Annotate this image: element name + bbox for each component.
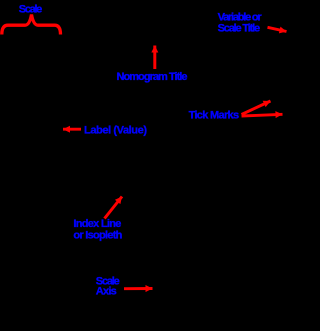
svg-text:Axis: Axis [96, 286, 117, 298]
svg-text:Scale: Scale [19, 3, 43, 15]
svg-text:Nomogram Title: Nomogram Title [117, 71, 188, 83]
svg-text:Scale Title: Scale Title [218, 22, 261, 34]
svg-text:Label (Value): Label (Value) [84, 125, 147, 137]
svg-text:Tick Marks: Tick Marks [189, 109, 240, 121]
svg-text:Index Line: Index Line [73, 218, 121, 230]
svg-text:or Isopleth: or Isopleth [73, 230, 122, 242]
